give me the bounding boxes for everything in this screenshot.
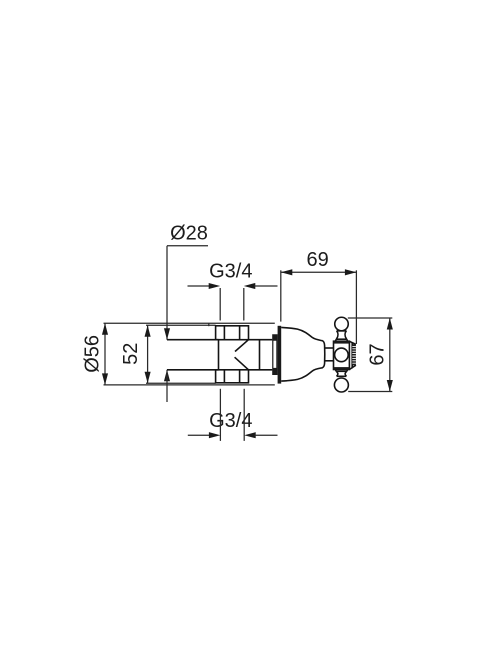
extension line 67 top [348, 317, 393, 319]
valve stem bottom edge [325, 360, 334, 362]
nut top facet right [239, 326, 241, 340]
handle hub circle [335, 348, 349, 362]
dimension line Ø56 [104, 323, 106, 385]
arrow G3/4 top left [209, 283, 221, 289]
handle top ball [335, 317, 349, 331]
handle knurl bottom wedge [349, 365, 356, 369]
arrow Ø28 top [164, 328, 170, 340]
handle top neck waist [336, 331, 346, 339]
svg-text:69: 69 [306, 249, 328, 271]
handle knurl stripes [352, 346, 356, 363]
leader line Ø28 vertical bottom [166, 370, 168, 402]
arrow 67 top [387, 318, 393, 330]
leader line Ø28 vertical top [166, 246, 168, 340]
handle bottom ball [334, 378, 348, 392]
arrow G3/4 bottom left [209, 432, 221, 438]
arrow Ø56 bottom [102, 373, 108, 385]
extension line G3/4 bottom left [219, 389, 221, 441]
svg-text:G3/4: G3/4 [209, 410, 252, 432]
svg-text:52: 52 [120, 343, 142, 365]
svg-text:G3/4: G3/4 [209, 261, 252, 283]
handle knurl strip [352, 344, 356, 365]
pipe right bottom edge [249, 369, 273, 371]
extension line 69 right [355, 270, 357, 344]
arrow Ø28 bottom [164, 370, 170, 382]
handle bottom neck waist [336, 371, 346, 376]
svg-text:Ø28: Ø28 [170, 223, 208, 245]
nut bottom facet left [223, 370, 225, 383]
valve seat diagonal top [235, 340, 249, 352]
extension line Ø56 top [104, 322, 275, 324]
handle top neck base line [336, 338, 346, 340]
pipe left top edge [167, 339, 219, 341]
nut bottom G3/4 [216, 370, 249, 383]
extension line G3/4 top right [243, 288, 245, 321]
nut top facet left [223, 326, 225, 340]
nut bottom facet right [239, 370, 241, 383]
dimension line G3/4 bottom right [254, 434, 277, 436]
handle bottom neck collar line [336, 370, 346, 372]
handle top neck collar line [337, 330, 347, 332]
dimension line G3/4 top left [188, 285, 211, 287]
dimension line 52 [147, 325, 149, 383]
handle top neck flare [335, 339, 347, 341]
extension line 69 left [280, 270, 282, 321]
svg-text:Ø56: Ø56 [81, 335, 103, 373]
arrow G3/4 top right [244, 283, 256, 289]
valve seat diagonal bottom [235, 357, 249, 370]
handle bottom neck flare [335, 370, 347, 372]
valve stem top edge [325, 347, 334, 349]
arrow 67 bottom [387, 380, 393, 392]
extension line 52 top [146, 324, 216, 326]
dimension line G3/4 top right [254, 285, 278, 287]
extension line Ø56 bottom [104, 384, 275, 386]
handle hub chamfer edge [351, 343, 353, 369]
dimension line 67 [389, 318, 391, 392]
escutcheon plate [278, 326, 282, 384]
extension line G3/4 bottom right [243, 389, 245, 441]
dimension line G3/4 bottom left [188, 434, 211, 436]
arrow 69 right [345, 269, 357, 275]
extension line 67 bottom [348, 391, 392, 393]
pipe left bottom edge [167, 369, 219, 371]
escutcheon bell [281, 327, 324, 381]
handle bottom neck base line [337, 375, 347, 377]
handle hub outline [334, 341, 350, 369]
extension line 52 bottom [146, 382, 216, 384]
handle hub top band [334, 341, 350, 343]
leader line Ø28 underline [167, 245, 208, 247]
arrow Ø56 top [102, 323, 108, 335]
arrow G3/4 bottom right [244, 432, 256, 438]
arrow 69 left [281, 269, 293, 275]
svg-text:67: 67 [366, 343, 388, 365]
nut top G3/4 [216, 326, 249, 340]
dimension line 69 [281, 271, 357, 273]
extension line G3/4 top left [219, 288, 221, 321]
collar inner ring [272, 334, 277, 375]
handle hub bottom band [334, 367, 350, 369]
handle knurl top wedge [349, 341, 356, 344]
valve body left edge [218, 340, 220, 370]
arrow 52 bottom [145, 372, 151, 384]
pipe joint line [259, 340, 261, 370]
arrow 52 top [145, 325, 151, 337]
tick at plate left [208, 324, 210, 327]
pipe right top edge [249, 339, 273, 341]
